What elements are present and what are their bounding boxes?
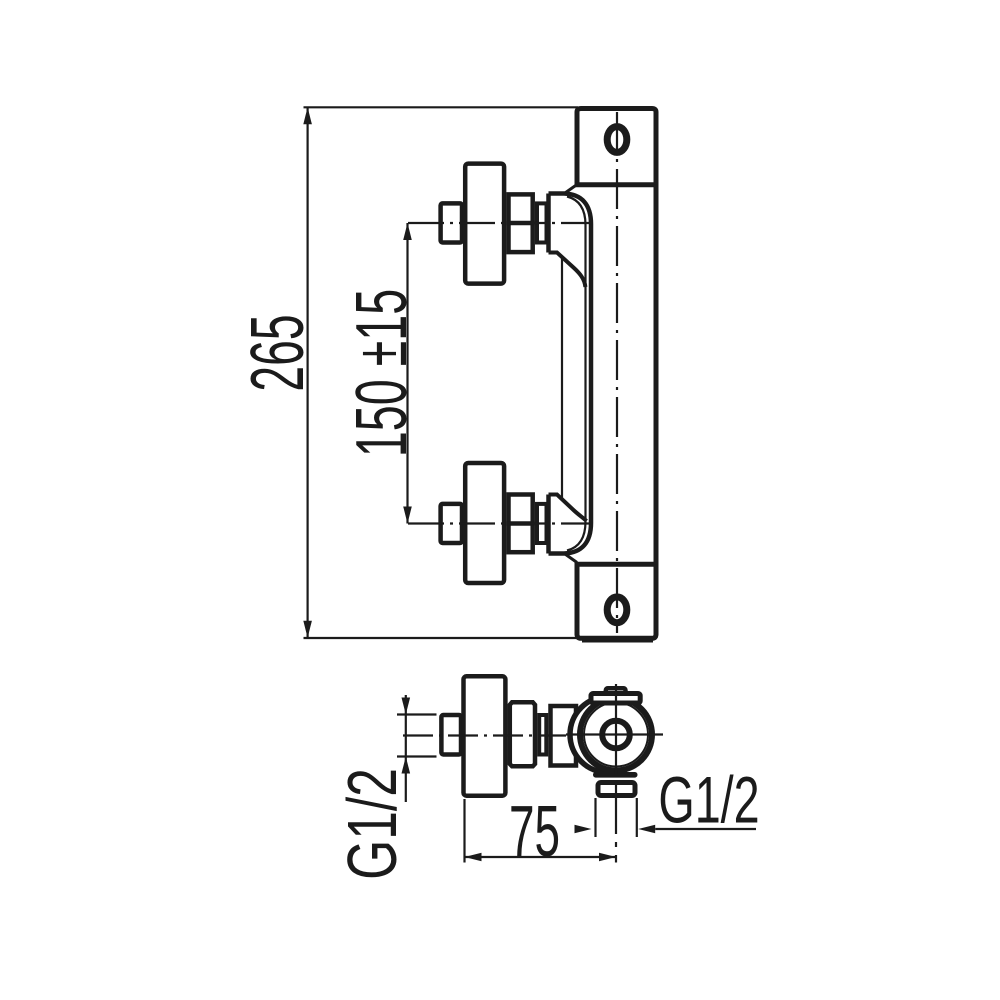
side view hex nut: [510, 702, 535, 766]
extension line stub bottom: [397, 755, 437, 757]
wall-bar bottom plate: [577, 564, 656, 638]
wall-bar top plate: [577, 109, 656, 185]
centerline wall bar: [616, 112, 618, 633]
handle circle inner thin: [584, 703, 648, 767]
arrow 75 left: [465, 853, 482, 862]
extension line bottom (265): [304, 637, 579, 639]
side view cylinder: [539, 715, 546, 755]
handle hub ring: [602, 721, 630, 749]
bottom hex nut facet line: [506, 521, 534, 526]
centerline outlet: [615, 769, 617, 863]
top hex nut facet line: [506, 221, 534, 226]
bottom inner fillet: [549, 495, 587, 522]
side view flange: [464, 676, 506, 795]
arrow G1/2 right inner: [575, 825, 592, 834]
extension line stub top: [397, 713, 437, 715]
dimension line 75: [465, 856, 617, 858]
arrow G1/2 left bottom: [402, 757, 411, 774]
riser tube silhouette: [561, 257, 563, 499]
dimension line G1/2 left: [405, 695, 407, 802]
top corner diagonal: [565, 185, 577, 194]
crosshair horizontal: [566, 733, 663, 735]
top union hex nut: [509, 194, 533, 252]
bottom union cylinder: [537, 504, 547, 543]
outlet extension right: [636, 798, 638, 837]
washer under circle: [593, 772, 638, 778]
thin line under bottom plate: [582, 641, 653, 643]
arrow G1/2 right outer: [638, 825, 655, 834]
arrow 265 bottom: [303, 621, 312, 638]
bottom union hex nut: [509, 495, 533, 553]
handle circle outer: [580, 699, 652, 771]
dimension G1/2 right line: [655, 828, 756, 830]
top screw hole: [607, 127, 627, 153]
extension line 75 left: [463, 799, 465, 863]
extension line top (265): [304, 106, 579, 108]
cartridge cap small tab: [606, 688, 626, 698]
svg-text:265: 265: [237, 314, 320, 391]
valve body end crescent: [570, 697, 646, 773]
arrow 150 bottom: [403, 507, 412, 524]
tangent edge thin line: [567, 197, 586, 551]
wall-bar right edge: [654, 185, 659, 565]
bottom screw hole: [607, 597, 627, 623]
valve body: [551, 706, 577, 766]
svg-text:G1/2: G1/2: [333, 768, 412, 880]
bottom cone left edge: [546, 495, 551, 554]
dimension line 150: [406, 223, 408, 524]
arrow 150 top: [403, 223, 412, 240]
arrow 75 right: [599, 853, 616, 862]
top union cylinder: [537, 203, 547, 242]
dimension line 265: [307, 107, 309, 638]
bottom union pipe stub: [441, 504, 462, 543]
bottom union flange: [465, 463, 504, 583]
centerline bottom union: [408, 522, 591, 524]
top inner fillet: [549, 253, 586, 288]
outlet nut: [598, 783, 635, 796]
arrow 265 top: [303, 107, 312, 124]
elbow outer contour and body left edge: [549, 194, 592, 554]
side view pipe stub: [441, 715, 461, 755]
arrow G1/2 left top: [402, 698, 411, 715]
top union flange: [465, 164, 504, 284]
top union pipe stub: [441, 203, 462, 242]
centerline side stub: [403, 734, 566, 736]
svg-text:G1/2: G1/2: [658, 764, 759, 838]
cartridge cap big tab: [591, 694, 640, 704]
svg-text:75: 75: [509, 790, 560, 871]
bottom corner diagonal: [565, 554, 577, 563]
outlet extension left: [594, 798, 596, 837]
svg-text:150 ±15: 150 ±15: [341, 289, 422, 457]
top cone left edge: [546, 194, 551, 253]
crosshair vertical: [615, 684, 617, 770]
centerline top union: [408, 222, 591, 224]
